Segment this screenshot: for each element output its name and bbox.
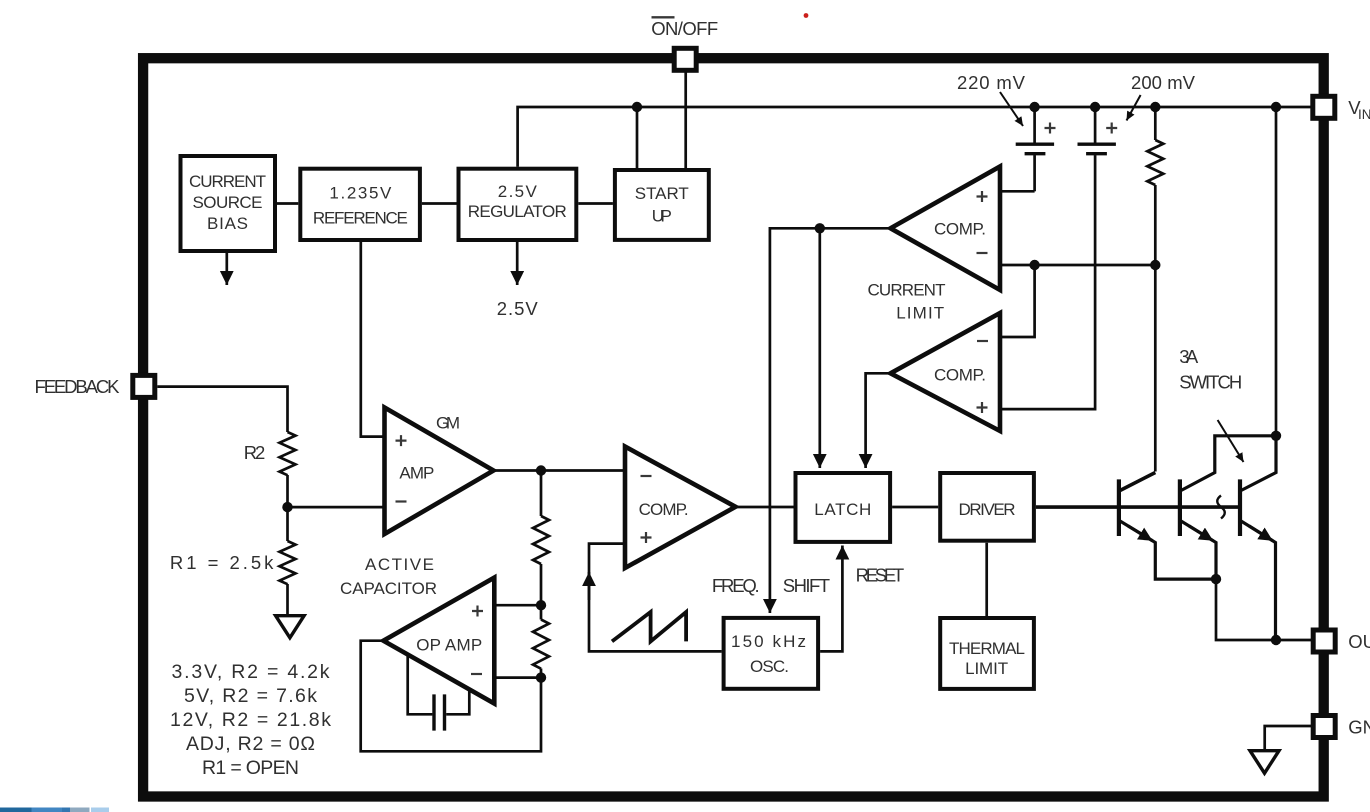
- transistor Q3 emitter arrow: [1249, 526, 1273, 541]
- svg-text:COMP.: COMP.: [934, 365, 986, 384]
- wire current limit comp1 output to freq shift: [770, 228, 891, 613]
- wire R2 to node: [286, 475, 289, 507]
- label 3A SWITCH: [1179, 346, 1242, 392]
- transistor Q2 emitter: [1181, 521, 1216, 579]
- label GM amp: [399, 414, 460, 483]
- wire comp2 plus feed via 200mV offset: [1000, 155, 1095, 409]
- wire output node down to divider: [540, 471, 543, 517]
- op-amp main comparator: [625, 447, 736, 569]
- box 2.5V regulator: [459, 169, 577, 240]
- transistor Q3 emitter: [1241, 521, 1276, 640]
- label 150 kHz OSC.: [731, 632, 806, 676]
- capacitor op amp plates: [434, 694, 445, 730]
- op-amp current limit comparator 1: [891, 167, 1001, 291]
- label VIN: [1348, 97, 1370, 122]
- wire op amp cap left leg: [408, 655, 433, 715]
- svg-text:COMP.: COMP.: [639, 500, 689, 519]
- node comp1 output junction: [815, 223, 825, 233]
- svg-text:LIMIT: LIMIT: [896, 304, 944, 323]
- wire sense resistor top stub: [1154, 107, 1157, 140]
- node VIN switch drop junction: [1271, 102, 1281, 112]
- svg-text:ACTIVE: ACTIVE: [365, 555, 434, 574]
- label active capacitor: [340, 555, 437, 598]
- wire bias to reference: [277, 202, 298, 205]
- wire latch to driver: [892, 506, 938, 509]
- op-amp GM amplifier: [385, 408, 494, 535]
- wire oscillator to comparator plus: [589, 544, 722, 652]
- label start up: [635, 184, 689, 225]
- label main comp plus: [641, 532, 652, 543]
- wire GND pin to ground: [1265, 726, 1313, 749]
- svg-text:3A: 3A: [1179, 346, 1199, 367]
- transistor Q1 emitter: [1120, 521, 1216, 579]
- svg-text:GND: GND: [1348, 717, 1370, 738]
- label 1.235V reference: [313, 183, 408, 227]
- node OUT junction: [1271, 635, 1281, 645]
- resistor R2: [280, 432, 296, 475]
- transistor Q2 bar: [1178, 479, 1182, 536]
- transistor Q3 bar: [1238, 479, 1242, 536]
- continuation squiggle on base wire: [1217, 496, 1225, 519]
- label op amp plus: [472, 606, 483, 617]
- box driver: [940, 473, 1034, 541]
- label comp1 minus: [977, 252, 988, 254]
- node sense resistor junction: [1150, 102, 1160, 112]
- wire driver to switch base: [1036, 505, 1239, 509]
- resistor divider upper: [533, 516, 549, 564]
- svg-text:OP AMP: OP AMP: [416, 635, 482, 654]
- svg-text:R1 = OPEN: R1 = OPEN: [202, 757, 299, 779]
- wire node to GM amp minus input: [288, 506, 385, 509]
- wire startup feed: [636, 107, 639, 170]
- wire comp1 plus feed: [1000, 190, 1035, 193]
- svg-text:R2: R2: [244, 442, 265, 463]
- wire op amp cap right leg: [446, 689, 469, 714]
- wire comparator output to latch: [736, 506, 794, 509]
- op-amp current limit comparator 2: [891, 313, 1001, 431]
- box thermal limit: [940, 618, 1034, 689]
- transistor Q1 collector: [1120, 473, 1155, 491]
- wire between divider resistors: [540, 564, 543, 620]
- label R2 value table: [170, 661, 331, 779]
- svg-text:OUT: OUT: [1348, 631, 1370, 652]
- arrow 2.5V below regulator: [516, 242, 519, 285]
- pin OUT square: [1313, 630, 1335, 652]
- wire comp2 minus feed: [1000, 265, 1035, 337]
- label comp2 plus: [977, 402, 988, 413]
- pin GND square: [1313, 716, 1335, 738]
- node 200mV offset junction: [1090, 102, 1100, 112]
- svg-text:LATCH: LATCH: [814, 500, 871, 519]
- label GM plus: [396, 435, 407, 446]
- svg-text:220 mV: 220 mV: [957, 72, 1026, 93]
- node op amp plus junction: [536, 600, 546, 610]
- node sense minus junction: [1150, 260, 1160, 270]
- box latch: [796, 473, 891, 542]
- node comp1 minus junction: [1029, 260, 1039, 270]
- label plus 200mV offset: [1106, 123, 1117, 134]
- svg-text:ON/OFF: ON/OFF: [651, 18, 718, 39]
- svg-text:R1 = 2.5k: R1 = 2.5k: [170, 552, 274, 573]
- ground under R1: [276, 616, 305, 638]
- wire sense resistor to Q1 collector: [1154, 185, 1157, 472]
- svg-text:REFERENCE: REFERENCE: [313, 208, 408, 227]
- wire VIN rail: [518, 107, 1312, 167]
- svg-text:150 kHz: 150 kHz: [731, 632, 806, 651]
- label plus 220mV offset: [1045, 123, 1056, 134]
- svg-text:CURRENT: CURRENT: [189, 172, 266, 191]
- transistor Q2 emitter arrow: [1189, 526, 1213, 541]
- blue strip artifact: [0, 808, 109, 812]
- wire regulator to startup: [578, 202, 613, 205]
- wire 220mV offset bottom stub: [1033, 155, 1036, 191]
- svg-text:LIMIT: LIMIT: [965, 659, 1008, 678]
- arrow up on comparator plus wire: [588, 572, 591, 600]
- arrow label 220mV pointer: [1000, 92, 1023, 126]
- svg-text:2.5V: 2.5V: [497, 298, 539, 319]
- resistor divider lower: [533, 620, 549, 669]
- node feedback divider junction: [282, 502, 292, 512]
- wire VIN drop to switch collector node: [1275, 107, 1278, 436]
- box 150 kHz oscillator: [724, 618, 819, 689]
- svg-text:RESET: RESET: [856, 565, 905, 586]
- box start up: [615, 170, 709, 240]
- svg-text:REGULATOR: REGULATOR: [468, 202, 567, 221]
- svg-text:SOURCE: SOURCE: [193, 193, 263, 212]
- transistor Q2 collector: [1181, 436, 1276, 491]
- label comp2 minus: [977, 340, 988, 342]
- ground under GND pin: [1250, 751, 1279, 774]
- arrow label 3A switch pointer: [1218, 420, 1244, 462]
- wire feedback to R2: [157, 387, 287, 432]
- wire emitters to OUT pin: [1216, 579, 1313, 640]
- svg-text:5V, R2 = 7.6k: 5V, R2 = 7.6k: [184, 685, 317, 707]
- resistor R1: [280, 541, 296, 584]
- svg-text:CURRENT: CURRENT: [868, 280, 946, 299]
- wire op amp plus stub: [494, 604, 541, 607]
- svg-text:FREQ.: FREQ.: [712, 575, 760, 596]
- wire GM amp output to comparator: [494, 469, 626, 472]
- svg-text:SWITCH: SWITCH: [1179, 371, 1242, 392]
- svg-text:DRIVER: DRIVER: [959, 500, 1016, 519]
- svg-text:200 mV: 200 mV: [1131, 72, 1196, 93]
- transistor Q1 bar: [1117, 479, 1121, 536]
- wire node to R1: [286, 507, 289, 541]
- capacitor 220mV offset plates: [1016, 144, 1054, 154]
- transistor Q1 emitter arrow: [1128, 526, 1153, 541]
- capacitor 200mV offset plates: [1078, 144, 1116, 154]
- label op amp minus: [471, 673, 482, 675]
- svg-text:UP: UP: [652, 206, 672, 225]
- box current source bias: [181, 156, 276, 251]
- pin VIN square: [1313, 96, 1335, 118]
- IC outline border: [143, 58, 1324, 796]
- svg-text:START: START: [635, 184, 689, 203]
- wire 220mV offset top stub: [1033, 107, 1036, 143]
- svg-text:1.235V: 1.235V: [329, 183, 392, 202]
- svg-text:OSC.: OSC.: [750, 657, 789, 676]
- wire reference to GM amp plus input: [361, 242, 385, 437]
- svg-text:SHIFT: SHIFT: [783, 575, 830, 596]
- node emitter junction: [1211, 574, 1221, 584]
- label current source bias: [189, 172, 266, 233]
- svg-text:COMP.: COMP.: [934, 219, 986, 238]
- label 2.5V regulator: [468, 182, 567, 221]
- svg-text:AMP: AMP: [399, 464, 434, 483]
- wire comp1 node to latch top: [818, 228, 821, 468]
- box 1.235V reference: [300, 169, 420, 240]
- svg-text:THERMAL: THERMAL: [949, 639, 1025, 658]
- svg-text:FEEDBACK: FEEDBACK: [35, 376, 121, 397]
- red dot artifact: [804, 13, 809, 18]
- arrow below current source bias: [225, 253, 228, 285]
- svg-text:12V, R2 = 21.8k: 12V, R2 = 21.8k: [170, 709, 331, 731]
- wire reference to regulator: [422, 202, 457, 205]
- svg-text:ADJ, R2 = 0Ω: ADJ, R2 = 0Ω: [186, 733, 315, 755]
- wire reset from oscillator to latch: [820, 546, 842, 652]
- wire op amp minus stub: [494, 676, 541, 679]
- svg-text:BIAS: BIAS: [207, 214, 248, 233]
- wire on/off drop: [684, 70, 687, 170]
- wire comp1 minus line: [1000, 264, 1155, 267]
- wire driver to thermal limit: [985, 543, 988, 618]
- label comp1 plus: [977, 191, 988, 202]
- pin FEEDBACK square: [133, 375, 155, 397]
- node startup feed junction: [632, 102, 642, 112]
- wire 200mV offset top stub: [1094, 107, 1097, 143]
- wire current limit comp2 output to latch top: [866, 373, 891, 468]
- resistor current sense: [1147, 140, 1163, 185]
- node 220mV offset junction: [1029, 102, 1039, 112]
- label ON/OFF: [651, 17, 718, 39]
- svg-text:IN: IN: [1358, 107, 1370, 122]
- op-amp active capacitor op amp: [383, 578, 494, 704]
- sawtooth waveform: [612, 612, 686, 641]
- node op amp minus junction: [536, 672, 546, 682]
- label GM minus: [396, 500, 407, 502]
- svg-text:GM: GM: [436, 414, 460, 433]
- pin ON/OFF square: [674, 48, 696, 70]
- label current limit: [868, 280, 946, 322]
- label THERMAL LIMIT: [949, 639, 1025, 678]
- svg-text:2.5V: 2.5V: [498, 182, 538, 201]
- wire R1 to ground: [286, 584, 289, 614]
- svg-text:CAPACITOR: CAPACITOR: [340, 579, 437, 598]
- node switch collector junction: [1271, 431, 1281, 441]
- label main comp minus: [641, 475, 652, 477]
- transistor Q3 collector: [1241, 436, 1276, 491]
- node GM output junction: [536, 465, 546, 475]
- arrow label 200mV pointer: [1127, 95, 1141, 121]
- wire divider loop to op amp apex: [361, 641, 541, 752]
